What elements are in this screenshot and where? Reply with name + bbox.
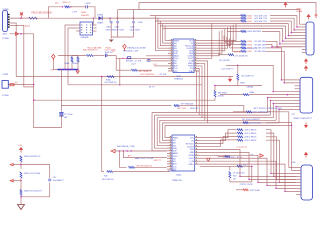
wire drop to third net bbox=[120, 151, 127, 167]
svg-text:4R 1/100 5%: 4R 1/100 5% bbox=[102, 179, 114, 181]
svg-text:R?: R? bbox=[113, 51, 115, 53]
CN401 pins bbox=[302, 23, 306, 25]
resistor R416 bbox=[230, 47, 241, 49]
wire vertical 211 bbox=[199, 23, 212, 58]
wire from J401 pin 3 down bbox=[10, 23, 17, 77]
svg-text:R4? 2R/1W ??: R4? 2R/1W ?? bbox=[139, 71, 151, 73]
wire H1 long bbox=[16, 76, 233, 78]
wire bbox=[107, 55, 116, 57]
bus net segment bbox=[58, 69, 79, 71]
svg-text:C1? 100n: C1? 100n bbox=[64, 114, 73, 116]
resistor R427 inline bbox=[174, 105, 180, 107]
IC U403 TDA8002 bbox=[172, 135, 195, 171]
svg-text:+ C4? /C2R ??: + C4? /C2R ?? bbox=[220, 68, 234, 70]
svg-text:CONN: CONN bbox=[2, 38, 9, 40]
svg-text:56 1/10W 5%: 56 1/10W 5% bbox=[105, 82, 117, 84]
wire joining pullup tops bbox=[72, 55, 78, 57]
capacitor C403 bbox=[110, 22, 113, 23]
connector J401 DB9 bbox=[3, 11, 8, 32]
junction H1 bbox=[101, 76, 103, 78]
svg-text:NRV a C: NRV a C bbox=[63, 2, 71, 4]
net flag down bbox=[76, 71, 79, 74]
power arrow bbox=[20, 148, 23, 153]
svg-text:+I/O6 1.7M/O4: +I/O6 1.7M/O4 bbox=[244, 130, 256, 132]
svg-text:GND: GND bbox=[190, 152, 195, 154]
resistor R417 bbox=[232, 50, 241, 52]
power arrow CN402 bbox=[305, 59, 308, 64]
svg-text:R413 10R/1206: R413 10R/1206 bbox=[248, 31, 261, 33]
svg-text:C1a?: C1a? bbox=[131, 63, 136, 65]
svg-text:+I/O9 1.7M/O4: +I/O9 1.7M/O4 bbox=[244, 140, 256, 142]
ground arrow bbox=[18, 205, 25, 210]
svg-text:D5N4: D5N4 bbox=[98, 15, 104, 17]
resistor R405 inline bbox=[107, 76, 114, 78]
wire arrow net bbox=[115, 150, 167, 152]
svg-text:22uF 100V: 22uF 100V bbox=[114, 30, 124, 32]
svg-text:R?? 1R0/1206: R?? 1R0/1206 bbox=[181, 103, 193, 105]
wire net 182 bbox=[230, 166, 252, 182]
crystal Y401 bbox=[59, 112, 63, 118]
wire bbox=[94, 55, 105, 57]
wire IC1 lower right pins to IC2 rails bbox=[199, 61, 208, 123]
resistor R419 inline bbox=[129, 166, 135, 168]
wire crystal vertical bbox=[60, 70, 62, 111]
rail 6 continues to lower right bbox=[282, 125, 292, 127]
svg-text:2R 1??: 2R 1?? bbox=[149, 87, 155, 89]
wire H2 long bbox=[68, 84, 202, 86]
staircase wires into CN403 bbox=[200, 149, 296, 176]
wires IC2 right to net rows bbox=[200, 130, 238, 138]
arrow right small bbox=[260, 154, 263, 157]
wire into IC1 lower-left pin bbox=[154, 65, 168, 67]
svg-text:10u EIA 47?: 10u EIA 47? bbox=[53, 179, 65, 182]
wire H3 bbox=[34, 97, 215, 100]
svg-text:R418 1/9 C/16 PL: R418 1/9 C/16 PL bbox=[242, 48, 257, 50]
resistor R422 vertical bbox=[229, 166, 231, 170]
svg-text:R4_ I/O4+1.7M/O4??: R4_ I/O4+1.7M/O4?? bbox=[242, 119, 260, 121]
relay pins bbox=[76, 24, 80, 26]
wire H 85 bbox=[215, 85, 262, 87]
junction bbox=[20, 17, 22, 19]
svg-text:74HC1G04 + 1GP: 74HC1G04 + 1GP bbox=[123, 51, 139, 53]
wire drop to second net bbox=[123, 151, 166, 158]
svg-text:+I/O8 1.7M/O4: +I/O8 1.7M/O4 bbox=[244, 137, 256, 139]
wire after diode bbox=[102, 17, 160, 19]
capacitor C407 bbox=[48, 179, 51, 181]
wire row with resistor R406 bbox=[218, 54, 228, 56]
svg-text:SB2 2R05: SB2 2R05 bbox=[218, 92, 228, 94]
svg-text:C40? 100nF/5%: C40? 100nF/5% bbox=[140, 74, 155, 76]
svg-text:CLKDIV: CLKDIV bbox=[187, 146, 195, 148]
rail wires horizontal bbox=[150, 15, 241, 17]
net row single bbox=[227, 30, 241, 32]
bus junctions bbox=[61, 69, 62, 70]
svg-text:I_OB: I_OB bbox=[189, 161, 195, 163]
row K continuation wires bbox=[268, 112, 296, 168]
svg-text:R4?? 1/100: R4?? 1/100 bbox=[250, 190, 260, 192]
row 44.5 jog into CN401 pin8 bbox=[266, 45, 302, 47]
red arrow right of IC2 bbox=[207, 158, 211, 161]
resistor gate inline bbox=[131, 69, 137, 71]
wire from J401 pin 5 with flag bbox=[10, 33, 34, 35]
resistor R407 vertical bbox=[237, 65, 239, 73]
svg-text:MAX?CN C?? 2.2uF: MAX?CN C?? 2.2uF bbox=[135, 157, 154, 160]
pullup resistor R404 bbox=[77, 56, 79, 58]
svg-text:I/O3 10R C/TX: I/O3 10R C/TX bbox=[255, 21, 268, 23]
wire H3 branch bbox=[61, 105, 171, 107]
svg-text:+TV 1nF: +TV 1nF bbox=[159, 74, 168, 76]
junction dots arrow net bbox=[119, 150, 120, 151]
svg-text:CN40: CN40 bbox=[296, 9, 302, 11]
svg-text:+T?2 R????: +T?2 R???? bbox=[236, 147, 248, 149]
svg-text:1V 1/10W 5%: 1V 1/10W 5% bbox=[233, 172, 245, 174]
svg-text:TDA8004: TDA8004 bbox=[174, 78, 184, 81]
wire relay to bus 2 bbox=[68, 28, 76, 85]
svg-text:5k?: 5k? bbox=[233, 178, 236, 180]
resistor R410 bbox=[241, 15, 247, 17]
row continuation wires to bundle bbox=[270, 15, 297, 17]
signal arrow left bbox=[111, 149, 115, 153]
svg-text:I/O 10R 1206: I/O 10R 1206 bbox=[255, 44, 266, 46]
resistor R424 bbox=[20, 156, 22, 162]
svg-text:GC Q2/CW: GC Q2/CW bbox=[219, 60, 230, 62]
resistor row K6 bbox=[237, 139, 243, 141]
svg-text:U401: U401 bbox=[81, 12, 87, 14]
wire down to H3 bbox=[33, 34, 35, 100]
junction cap3 bbox=[133, 17, 135, 19]
wire gate row 1 bbox=[116, 57, 168, 59]
junction bbox=[20, 33, 22, 35]
rail B bbox=[118, 10, 302, 25]
wire net 65 to CN402 bbox=[238, 65, 295, 91]
relay K401 box bbox=[80, 22, 93, 35]
row K2 bbox=[243, 122, 249, 124]
arrow down CN402 bbox=[305, 123, 308, 128]
capacitor loop bbox=[21, 165, 50, 179]
svg-text:5K 1/10W 5%: 5K 1/10W 5% bbox=[241, 76, 253, 78]
arrow down red bbox=[229, 77, 232, 82]
net arrow left 1 bbox=[10, 163, 13, 166]
wire snubber branch bbox=[48, 7, 62, 18]
junction bbox=[237, 65, 239, 67]
svg-text:CTM2: CTM2 bbox=[2, 74, 9, 76]
wire main +V from J401 pin bbox=[10, 17, 29, 19]
wire to ground bbox=[20, 196, 22, 205]
svg-text:B5819: B5819 bbox=[98, 22, 105, 24]
IC U402 TDA8004 bbox=[173, 39, 194, 73]
svg-text:XTAL: XTAL bbox=[189, 70, 194, 73]
svg-text:1/R(2N)-1/2L 1/10W: 1/R(2N)-1/2L 1/10W bbox=[127, 47, 146, 49]
svg-text:I/O5 1K 1206: I/O5 1K 1206 bbox=[250, 123, 261, 125]
red cap mark top right bbox=[315, 15, 318, 18]
rails right bends up into CN402 lower pins bbox=[268, 98, 295, 113]
row resistor R420 bbox=[225, 156, 231, 158]
resistor R406 bbox=[228, 54, 234, 56]
svg-text:A-C: A-C bbox=[55, 2, 59, 5]
svg-text:R42 ???: R42 ??? bbox=[154, 160, 162, 162]
svg-text:C4?: C4? bbox=[291, 114, 294, 116]
svg-text:R426 1K 1/1206 1%: R426 1K 1/1206 1% bbox=[24, 190, 42, 192]
svg-text:R410: R410 bbox=[248, 15, 253, 17]
power flag arrows bbox=[20, 12, 23, 16]
svg-text:TDA8002: TDA8002 bbox=[168, 169, 177, 172]
svg-text:[ct]: [ct] bbox=[15, 81, 18, 84]
power +5V diamond bbox=[52, 54, 56, 58]
resistor R409 bbox=[243, 94, 249, 96]
resistor R402 bbox=[86, 55, 93, 57]
red flag bbox=[16, 32, 19, 35]
capacitor C404 bbox=[116, 22, 119, 23]
row K1 bbox=[246, 111, 252, 113]
wire gate vertical 2 bbox=[119, 58, 121, 85]
rails above IC2 with left nest bbox=[152, 113, 167, 151]
wire bbox=[237, 80, 239, 85]
resistor R411 bbox=[241, 17, 247, 19]
wire bbox=[20, 162, 22, 169]
svg-text:R415: R415 bbox=[248, 44, 253, 46]
svg-text:R414: R414 bbox=[248, 41, 253, 43]
svg-text:R4? 1K: R4? 1K bbox=[234, 52, 241, 54]
wires into IC1 mid-left pins bbox=[146, 55, 168, 57]
svg-text:R417: R417 bbox=[248, 51, 253, 53]
svg-text:CONN: CONN bbox=[2, 95, 9, 97]
svg-text:TM08C2H: TM08C2H bbox=[172, 180, 182, 182]
capacitor C405 bbox=[132, 22, 135, 23]
svg-text:ZHC24M+IN_C10N: ZHC24M+IN_C10N bbox=[117, 146, 135, 148]
svg-text:R425 4.7K 1/1206: R425 4.7K 1/1206 bbox=[24, 173, 41, 175]
CN402 pins bbox=[295, 79, 300, 81]
capacitor gate bbox=[128, 57, 131, 59]
resistor row K3 bbox=[237, 129, 243, 131]
ohm flag bbox=[123, 44, 127, 48]
wire net 166 bbox=[200, 165, 252, 167]
svg-text:CN402 CONN RCPT: CN402 CONN RCPT bbox=[293, 118, 312, 120]
wire +5V rail bbox=[58, 55, 86, 57]
junction H3 bbox=[33, 99, 35, 101]
svg-text:R4?? I/O2/TX: C?S?2/(C,B,T)/O4: R4?? I/O2/TX: C?S?2/(C,B,T)/O4 bbox=[254, 108, 282, 110]
resistor R423 bbox=[243, 189, 249, 191]
net arrow left 2 bbox=[10, 180, 13, 183]
connector CN402 bbox=[300, 77, 313, 113]
svg-text:RX4 C4?: RX4 C4? bbox=[190, 108, 199, 110]
CN403 pins bbox=[296, 166, 301, 168]
svg-text:+5V 1/10W 5%: +5V 1/10W 5% bbox=[234, 55, 248, 57]
ground bbox=[109, 40, 114, 43]
junction to ground bbox=[109, 17, 111, 19]
power arrow VCC on rail A bbox=[284, 3, 287, 8]
wire +5V stem bbox=[53, 61, 57, 70]
resistor R412 bbox=[241, 20, 247, 22]
relay pin marks bbox=[81, 25, 82, 26]
rail B stubs bbox=[117, 10, 119, 19]
pullup resistor R403 bbox=[71, 56, 73, 58]
svg-text:SAB2: SAB2 bbox=[173, 152, 178, 155]
svg-text:GND+: GND+ bbox=[189, 164, 195, 166]
svg-text:F401 CMS 5A/250V: F401 CMS 5A/250V bbox=[32, 12, 53, 15]
svg-text:RST/CLK: RST/CLK bbox=[186, 143, 195, 145]
svg-text:VCC: VCC bbox=[190, 137, 195, 139]
svg-text:B?/C4M + C? 1?R: B?/C4M + C? 1?R bbox=[126, 61, 142, 63]
wire cap bottoms bbox=[111, 36, 133, 38]
wire bbox=[20, 178, 22, 193]
svg-text:+I/O7 1.7M/O4: +I/O7 1.7M/O4 bbox=[244, 133, 256, 135]
svg-text:R4a 56/1W 5%: R4a 56/1W 5% bbox=[83, 50, 98, 52]
wire relay right pins to main bbox=[93, 18, 94, 19]
resistor R426 bbox=[20, 190, 22, 196]
svg-text:R421: R421 bbox=[243, 164, 248, 166]
svg-text:I/O 10R 1206: I/O 10R 1206 bbox=[255, 41, 266, 43]
resistor R421 bbox=[237, 165, 243, 167]
svg-text:K1A B7A: K1A B7A bbox=[81, 36, 89, 39]
wire V down to bottom run bbox=[102, 77, 104, 172]
wire relay to bus 1 bbox=[65, 25, 76, 70]
svg-text:U402: U402 bbox=[176, 76, 182, 78]
svg-text:K1A 24V: K1A 24V bbox=[81, 14, 89, 17]
inductor L402 bbox=[62, 6, 63, 7]
long bottom wire resistor bbox=[107, 171, 113, 173]
wire rails top nest to IC1 left pins bbox=[156, 16, 169, 51]
capacitor C mark left of IC1 bbox=[147, 60, 150, 62]
fuse F401 bbox=[29, 17, 38, 19]
resistor row K5 bbox=[237, 136, 243, 138]
connector CN401 bbox=[306, 22, 314, 55]
svg-text:1/10W: 1/10W bbox=[218, 95, 224, 97]
wire bbox=[20, 152, 22, 154]
wire from J401 pin 4 down bbox=[10, 25, 34, 87]
svg-text:R41 4R7/1206 5%: R41 4R7/1206 5% bbox=[137, 166, 153, 168]
svg-text:22uF 100V: 22uF 100V bbox=[130, 30, 140, 32]
svg-text:R411: R411 bbox=[248, 18, 252, 20]
svg-text:I/O 10R 1206: I/O 10R 1206 bbox=[255, 51, 266, 53]
junction cap2 bbox=[117, 17, 119, 19]
svg-text:CONN: CONN bbox=[296, 11, 303, 13]
resistor R408 vertical bbox=[214, 86, 216, 91]
resistor R414 bbox=[224, 40, 241, 42]
wire net 94 into CN402 pin6 bbox=[249, 94, 295, 96]
svg-text:[pwr]: [pwr] bbox=[25, 25, 30, 28]
thermistor red element bbox=[10, 84, 14, 86]
svg-text:U403: U403 bbox=[176, 174, 182, 176]
svg-text:R412: R412 bbox=[248, 21, 253, 23]
wire to C402 bbox=[70, 6, 85, 8]
resistor row K4 bbox=[237, 132, 243, 134]
fan wires into CN402 from rows above bbox=[266, 48, 295, 80]
wire gate row 3 bbox=[116, 69, 131, 71]
connector CN403 bbox=[301, 165, 313, 200]
resistor R425 bbox=[20, 172, 22, 178]
svg-text:I/O1 10R C/TX: I/O1 10R C/TX bbox=[255, 15, 268, 17]
wire box net right bbox=[8, 84, 33, 86]
svg-text:C402: C402 bbox=[85, 3, 91, 5]
wire IC1 right pin nest bbox=[199, 24, 236, 41]
cap leads bbox=[85, 6, 86, 8]
svg-text:C4/E2A: C4/E2A bbox=[246, 85, 254, 88]
wire gate vertical 1 bbox=[115, 56, 117, 71]
svg-text:VDD: VDD bbox=[190, 149, 195, 151]
resistor R415 bbox=[227, 44, 241, 46]
svg-text:R4?? 1/2W/5%/1206: R4?? 1/2W/5%/1206 bbox=[253, 112, 270, 114]
svg-text:I/O2 10R C/TX: I/O2 10R C/TX bbox=[255, 18, 268, 20]
svg-text:C?/R?# C/5/7R: C?/R?# C/5/7R bbox=[240, 184, 253, 186]
svg-text:R4? TX4: R4? TX4 bbox=[178, 108, 187, 110]
svg-text:J401: J401 bbox=[2, 34, 8, 36]
svg-text:COM9: COM9 bbox=[2, 9, 9, 11]
connector J402 box bbox=[2, 81, 8, 89]
power arrow CN403 bbox=[305, 152, 308, 157]
svg-text:CGND: CGND bbox=[188, 155, 194, 157]
wire crystal bottom loop bbox=[34, 100, 62, 127]
top rail A bbox=[139, 3, 316, 15]
svg-text:VOUT: VOUT bbox=[189, 158, 195, 160]
power arrow CN401 bbox=[307, 15, 310, 20]
svg-text:R424 1K/1206 1%: R424 1K/1206 1% bbox=[24, 156, 40, 158]
vertical bundle to CN401 bbox=[277, 41, 302, 46]
capacitor C406 bbox=[106, 54, 107, 58]
svg-text:+5V: +5V bbox=[18, 145, 22, 147]
